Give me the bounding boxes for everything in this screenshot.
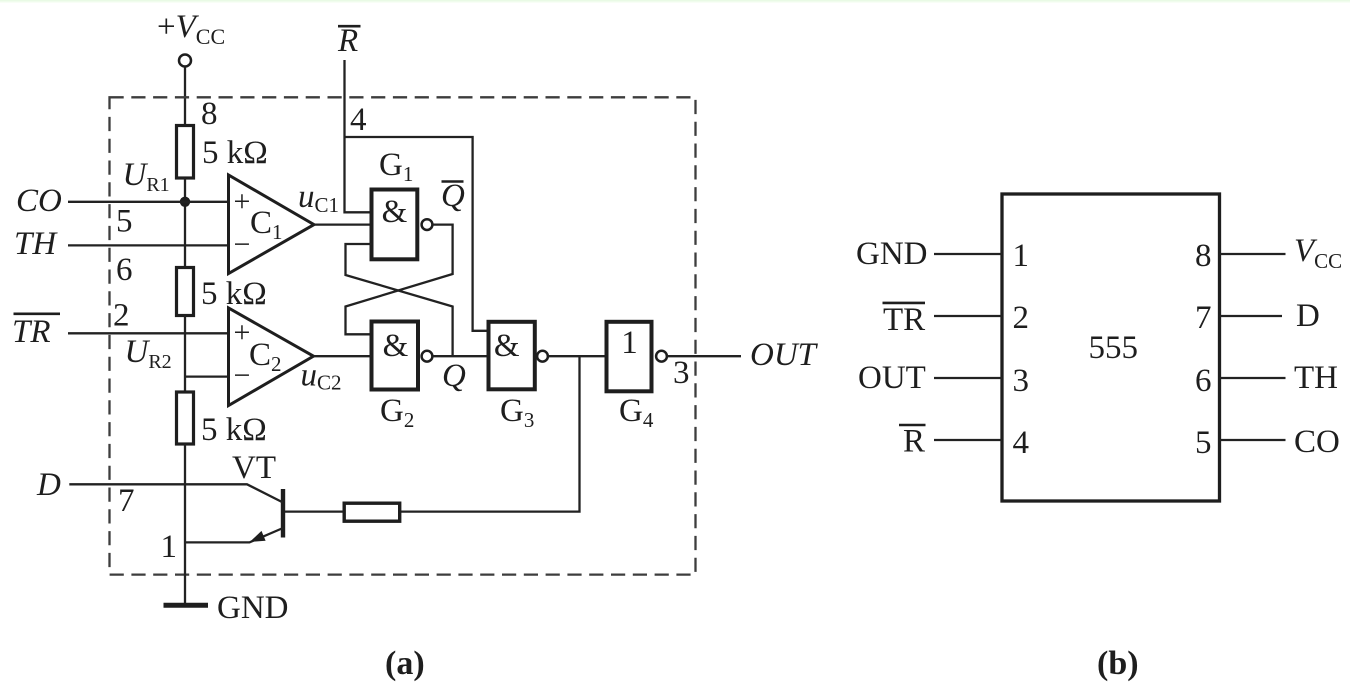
svg-text:OUT: OUT bbox=[750, 337, 819, 373]
NAND gate G2 bbox=[372, 322, 419, 390]
svg-text:TH: TH bbox=[1294, 360, 1338, 396]
svg-text:8: 8 bbox=[201, 96, 218, 132]
svg-text:+: + bbox=[234, 316, 251, 349]
svg-text:5 kΩ: 5 kΩ bbox=[202, 135, 268, 171]
Qbar label bbox=[442, 180, 464, 183]
svg-text:1: 1 bbox=[621, 325, 638, 361]
wire TH to C1 minus bbox=[68, 244, 229, 246]
transistor VT body bar bbox=[281, 489, 285, 538]
svg-text:5 kΩ: 5 kΩ bbox=[201, 412, 267, 448]
NAND gate G3 bbox=[489, 322, 535, 390]
wire Vcc to pin 8 bbox=[184, 67, 186, 126]
svg-text:+: + bbox=[234, 185, 251, 218]
top page edge tint bbox=[0, 0, 1350, 2]
wire Q to G3 bbox=[432, 355, 488, 357]
svg-text:&: & bbox=[383, 328, 409, 364]
wire Qbar cross-couple to G2 input bbox=[346, 225, 453, 335]
reset Rbar label bbox=[338, 25, 361, 28]
svg-text:R: R bbox=[903, 424, 925, 460]
pin 8 wire bbox=[1220, 253, 1286, 255]
G2 output bubble bbox=[422, 351, 433, 362]
wire D to VT collector bbox=[69, 484, 283, 502]
wire R2 to R3 bbox=[184, 316, 186, 393]
wire C1 output to G1 bbox=[314, 223, 372, 225]
svg-text:−: − bbox=[234, 228, 251, 261]
svg-text:TH: TH bbox=[14, 226, 58, 262]
dashed IC boundary box bbox=[110, 97, 696, 574]
svg-text:TR: TR bbox=[883, 302, 925, 338]
G4 output bubble bbox=[656, 351, 667, 362]
wire C2 output to G2 bbox=[314, 355, 372, 357]
wire Rbar branch to G3 input bbox=[345, 137, 489, 331]
TRbar pin label bbox=[883, 302, 926, 305]
comparator C1 bbox=[229, 175, 315, 274]
svg-text:3: 3 bbox=[1013, 363, 1030, 399]
wire R3 to GND bbox=[184, 444, 186, 605]
wire divider tap to C2 minus bbox=[185, 375, 229, 377]
svg-text:1: 1 bbox=[1013, 238, 1030, 274]
pin 3 wire bbox=[934, 377, 1002, 379]
G3 output bubble bbox=[537, 351, 548, 362]
svg-text:TR: TR bbox=[12, 314, 51, 350]
svg-text:VT: VT bbox=[232, 450, 276, 486]
svg-text:5: 5 bbox=[1195, 425, 1212, 461]
svg-text:6: 6 bbox=[116, 252, 133, 288]
pin 7 wire bbox=[1220, 315, 1283, 317]
svg-text:555: 555 bbox=[1089, 330, 1139, 366]
TR input label with overline bbox=[14, 312, 61, 315]
wire latch feedback to VT base resistor bbox=[400, 356, 580, 511]
wire VT emitter to GND rail bbox=[185, 528, 283, 542]
wire G3 to G4 bbox=[548, 355, 607, 357]
wire Q cross-couple to G1 input bbox=[346, 244, 453, 356]
base resistor bbox=[344, 503, 400, 521]
svg-text:5 kΩ: 5 kΩ bbox=[201, 276, 267, 312]
svg-text:CO: CO bbox=[1294, 424, 1340, 460]
comparator C2 bbox=[229, 308, 314, 406]
svg-text:1: 1 bbox=[161, 529, 178, 565]
svg-text:GND: GND bbox=[217, 590, 289, 626]
inverter G4 bbox=[607, 322, 652, 392]
555 IC body bbox=[1002, 194, 1220, 501]
G1 output bubble bbox=[422, 219, 433, 230]
svg-text:2: 2 bbox=[113, 298, 130, 334]
svg-text:D: D bbox=[1296, 298, 1320, 334]
Rbar pin label bbox=[899, 424, 926, 427]
wire CO to C1 plus bbox=[68, 201, 229, 203]
resistor R1 bbox=[177, 126, 194, 179]
svg-text:Q: Q bbox=[441, 178, 465, 214]
NAND gate G1 bbox=[372, 190, 418, 260]
svg-text:8: 8 bbox=[1195, 238, 1212, 274]
svg-text:&: & bbox=[382, 194, 408, 230]
svg-text:OUT: OUT bbox=[858, 360, 926, 396]
svg-text:6: 6 bbox=[1195, 363, 1212, 399]
svg-text:(b): (b) bbox=[1097, 645, 1139, 682]
pin 6 wire bbox=[1220, 377, 1286, 379]
resistor R2 bbox=[177, 268, 194, 316]
pin 2 wire bbox=[934, 315, 1002, 317]
resistor R3 bbox=[177, 392, 194, 444]
svg-text:GND: GND bbox=[856, 236, 928, 272]
svg-text:2: 2 bbox=[1013, 300, 1030, 336]
svg-text:4: 4 bbox=[350, 102, 367, 138]
VT emitter arrow bbox=[250, 531, 266, 542]
ground symbol bbox=[164, 603, 209, 608]
wire TR to C2 plus bbox=[68, 332, 229, 334]
wire to OUT bbox=[667, 355, 741, 357]
svg-text:Q: Q bbox=[442, 358, 466, 394]
wire R1 to R2 bbox=[184, 178, 186, 268]
svg-text:5: 5 bbox=[116, 204, 133, 240]
wire resistor to VT base bbox=[284, 510, 344, 512]
svg-text:7: 7 bbox=[118, 483, 135, 519]
svg-text:&: & bbox=[494, 328, 520, 364]
svg-text:CO: CO bbox=[16, 183, 62, 219]
pin 5 wire bbox=[1220, 439, 1286, 441]
wire Rbar down to G1 input bbox=[345, 60, 372, 212]
pin 4 wire bbox=[934, 439, 1002, 441]
svg-text:−: − bbox=[234, 359, 251, 392]
svg-text:(a): (a) bbox=[385, 645, 425, 682]
Vcc terminal circle bbox=[179, 55, 191, 67]
svg-text:3: 3 bbox=[673, 355, 690, 391]
svg-text:7: 7 bbox=[1195, 300, 1212, 336]
svg-text:4: 4 bbox=[1013, 425, 1030, 461]
pin 1 wire bbox=[934, 253, 1002, 255]
node UR1 junction dot bbox=[180, 197, 190, 207]
svg-text:D: D bbox=[36, 467, 61, 503]
svg-text:R: R bbox=[337, 23, 358, 59]
